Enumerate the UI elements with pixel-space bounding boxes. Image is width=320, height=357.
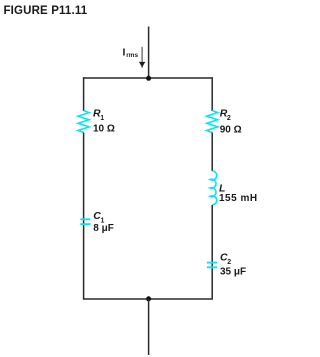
- svg-text:I: I: [123, 47, 126, 59]
- node: top junction: [146, 76, 151, 81]
- label R2: [220, 107, 231, 122]
- wire: right branch lower: [211, 205, 213, 299]
- svg-text:8 μF: 8 μF: [93, 223, 114, 234]
- wire: bottom rail: [83, 298, 213, 300]
- resistor R2: [207, 111, 218, 133]
- svg-text:10 Ω: 10 Ω: [93, 124, 115, 135]
- wire: bottom source lead: [148, 299, 150, 355]
- svg-text:155 mH: 155 mH: [219, 193, 258, 204]
- label R1: [93, 107, 104, 122]
- svg-text:90 Ω: 90 Ω: [220, 125, 242, 136]
- svg-text:FIGURE P11.11: FIGURE P11.11: [4, 5, 88, 17]
- svg-text:2: 2: [227, 259, 231, 266]
- figure title: [4, 5, 88, 17]
- current arrow I_rms: [139, 47, 145, 68]
- label 155 mH: [219, 193, 258, 204]
- svg-text:1: 1: [100, 115, 104, 122]
- svg-text:2: 2: [227, 115, 231, 122]
- svg-text:rms: rms: [126, 52, 138, 59]
- svg-text:35 μF: 35 μF: [220, 266, 246, 277]
- wire: right branch between R2 and L: [211, 133, 213, 172]
- label C1: [93, 210, 104, 225]
- wire: top source lead: [148, 27, 150, 79]
- label 10 ohm: [93, 124, 115, 135]
- inductor L: [210, 171, 217, 205]
- wire: left branch middle: [83, 133, 85, 300]
- label 90 ohm: [220, 125, 242, 136]
- capacitor C2: [207, 263, 217, 268]
- label L: [219, 183, 225, 195]
- node: bottom junction: [146, 296, 151, 301]
- wire: left branch upper: [83, 77, 85, 111]
- wire: right branch upper: [211, 77, 213, 111]
- label 35 uF: [220, 266, 246, 277]
- capacitor C1: [80, 219, 90, 224]
- wire: top rail: [83, 77, 213, 79]
- resistor R1: [78, 111, 89, 133]
- label 8 uF: [93, 223, 114, 234]
- label I_rms: [123, 47, 139, 60]
- label C2: [220, 252, 231, 267]
